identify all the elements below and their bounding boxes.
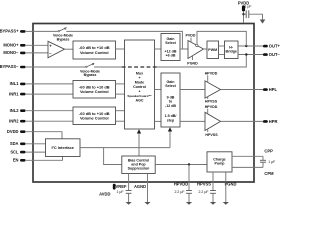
bias control box	[122, 156, 155, 174]
wire EN to I2C box bottom	[26, 157, 63, 161]
wire gain2 to HP amp R	[180, 120, 205, 122]
HPVSS label of A2	[205, 97, 218, 104]
svg-text:Volume Control: Volume Control	[80, 116, 109, 121]
svg-text:CPM: CPM	[264, 171, 274, 176]
pin HPVSS bottom	[197, 182, 216, 202]
wire PVDD down into box	[243, 11, 245, 23]
pin INL1	[10, 81, 26, 86]
svg-text:Bypass: Bypass	[57, 38, 70, 42]
svg-text:HPVSS: HPVSS	[205, 99, 218, 103]
mux mode control AGC box	[125, 40, 155, 129]
ground for PGND	[223, 202, 229, 205]
capacitor C1 flying cap	[260, 156, 275, 167]
svg-text:DVDD: DVDD	[7, 129, 19, 134]
svg-text:-12 dB: -12 dB	[165, 104, 176, 108]
svg-text:AGND: AGND	[134, 184, 146, 189]
svg-text:2.2 μF: 2.2 μF	[199, 190, 209, 194]
pin INL2	[10, 108, 26, 113]
wire charge pump to CPP	[232, 155, 263, 157]
headphone amp A2 (left)	[205, 81, 221, 98]
node OUT- junction	[245, 53, 247, 55]
wire A1 to PWM	[204, 48, 208, 50]
pin OUT+	[263, 44, 280, 49]
svg-text:INL2: INL2	[10, 108, 20, 113]
svg-text:INR2: INR2	[9, 118, 19, 123]
svg-text:HPVDD: HPVDD	[205, 105, 218, 109]
svg-text:VREF: VREF	[116, 184, 127, 189]
wire MONO-	[26, 52, 48, 54]
svg-text:HPVSS: HPVSS	[205, 133, 218, 137]
wire bias box down to VREF	[128, 174, 130, 183]
svg-text:I²C Interface: I²C Interface	[51, 145, 74, 150]
H-bridge box	[225, 41, 239, 59]
HPVSS label of A3	[205, 129, 218, 137]
svg-text:Mode: Mode	[135, 80, 144, 84]
wire gain1 to class-D amp	[180, 48, 188, 50]
svg-text:+: +	[138, 76, 140, 80]
svg-text:Bridge: Bridge	[226, 50, 237, 54]
svg-text:Pump: Pump	[215, 162, 226, 166]
svg-text:1 μF: 1 μF	[116, 190, 123, 194]
class-D amplifier A1	[188, 41, 204, 59]
svg-text:Control: Control	[133, 85, 146, 89]
ground for HPVSS	[210, 202, 216, 205]
svg-text:HPVDD: HPVDD	[205, 72, 218, 76]
svg-text:SCL: SCL	[10, 149, 19, 154]
volume control box 1 (mono)	[73, 41, 116, 59]
wire A3 to HPR	[221, 120, 264, 122]
pin SDA	[10, 141, 26, 146]
PGND label of A1	[187, 56, 198, 66]
wire charge pump to CPM	[232, 166, 263, 168]
wire bias to gain select 2 arrow	[168, 127, 172, 147]
svg-text:+6 dB: +6 dB	[166, 53, 176, 57]
wire SDA	[26, 143, 46, 145]
op-amp U1 mono differential amp	[48, 41, 65, 58]
wires PWM to H-bridge	[219, 46, 225, 55]
pin AVDD bottom	[99, 184, 115, 197]
svg-text:BYPASS−: BYPASS−	[0, 64, 19, 69]
svg-text:SDA: SDA	[10, 141, 19, 146]
headphone amp A3 (right)	[205, 112, 221, 130]
svg-text:HPR: HPR	[269, 119, 278, 124]
pin SCL	[10, 149, 25, 154]
wire BYPASS+ to switch	[26, 30, 58, 32]
pin CPP	[264, 149, 273, 154]
svg-text:CPP: CPP	[264, 149, 273, 154]
wire BYPASS- dashed through mux	[122, 66, 158, 68]
svg-text:AGC: AGC	[136, 98, 144, 102]
pin PVDD top	[238, 0, 249, 11]
volume control box 2 (INL1/INR1)	[73, 81, 116, 99]
svg-text:HPVSS: HPVSS	[197, 182, 211, 187]
pin HPL	[263, 87, 277, 92]
ground for AGND	[144, 202, 150, 205]
wire INR1	[26, 93, 73, 95]
svg-text:HPL: HPL	[269, 87, 278, 92]
svg-text:PGND: PGND	[187, 62, 198, 66]
pin BYPASS-	[0, 64, 26, 69]
svg-text:EN: EN	[13, 158, 19, 163]
switch S1 voice-mode bypass	[53, 28, 73, 42]
svg-text:+: +	[138, 89, 140, 93]
svg-text:SpeakerGuard™: SpeakerGuard™	[127, 94, 151, 98]
ground for VREF	[126, 202, 132, 205]
charge pump box	[207, 152, 232, 172]
wire INL2	[26, 110, 73, 112]
pin DVDD	[7, 129, 26, 134]
wire mux to gain select 1	[155, 48, 162, 50]
pin CPM	[264, 171, 274, 176]
PVDD supply label of A1	[186, 34, 196, 43]
svg-text:Volume Control: Volume Control	[80, 50, 109, 55]
svg-text:Select: Select	[165, 41, 176, 45]
svg-text:MONO−: MONO−	[3, 50, 19, 55]
wire bias to mux arrow	[137, 129, 141, 156]
wires volume2 to mux	[116, 84, 125, 94]
wire HPVDD junction down	[188, 165, 190, 183]
svg-text:Mux: Mux	[136, 71, 143, 75]
pin VREF bottom	[116, 182, 132, 202]
pin OUT-	[263, 52, 280, 57]
svg-text:OUT−: OUT−	[269, 52, 280, 57]
svg-text:Bypass: Bypass	[84, 73, 97, 77]
pin INR1	[9, 91, 25, 96]
HPVDD label of A2	[205, 72, 218, 83]
pin MONO-	[3, 50, 25, 55]
svg-text:step: step	[167, 119, 175, 123]
svg-text:OUT+: OUT+	[269, 44, 280, 49]
pin MONO+	[3, 43, 25, 48]
ground for HPVDD	[186, 202, 192, 205]
wire MONO+	[26, 44, 48, 46]
node PVDD junction	[242, 13, 244, 15]
outer device box	[33, 24, 254, 183]
svg-text:1.5 dB/: 1.5 dB/	[165, 114, 177, 118]
svg-text:INL1: INL1	[10, 81, 20, 86]
capacitor C2 PVDD decoupling	[244, 5, 263, 20]
wire drop to bias control box	[104, 148, 122, 165]
svg-text:1 μF: 1 μF	[245, 5, 252, 9]
pin EN	[13, 158, 26, 163]
svg-text:PGND: PGND	[225, 182, 237, 187]
wire A2 to HPL	[221, 89, 264, 91]
wire I2C to bias control net	[80, 147, 170, 149]
pin PGND bottom	[225, 182, 237, 202]
svg-text:Suppression: Suppression	[128, 167, 150, 171]
wire BYPASS- to switch 2	[26, 66, 86, 68]
gain select box 1 (speaker)	[161, 34, 180, 61]
pin HPR	[263, 119, 277, 124]
svg-text:MONO+: MONO+	[3, 43, 19, 48]
pin AGND bottom	[134, 182, 148, 202]
wire BYPASS- to OUT- node	[155, 55, 247, 68]
gain select box 2 (headphone)	[161, 73, 180, 127]
I2C interface box	[46, 139, 81, 157]
wire bias box down to AGND	[147, 174, 149, 183]
feedback node circle on A1	[196, 44, 198, 46]
svg-text:2.2 μF: 2.2 μF	[175, 190, 185, 194]
volume control box 3 (INL2/INR2)	[73, 107, 116, 125]
ground for PVDD cap	[260, 20, 266, 24]
PWM box	[207, 41, 219, 59]
pin BYPASS+	[0, 29, 26, 34]
svg-text:INR1: INR1	[9, 91, 19, 96]
wire SCL	[26, 151, 46, 153]
wire OUT- line	[238, 54, 263, 56]
wire BYPASS+ from switch to class-D input	[66, 31, 188, 49]
wires volume3 to mux	[116, 111, 125, 122]
wire bias box to charge pump	[155, 164, 207, 166]
svg-text:1 μF: 1 μF	[268, 160, 275, 164]
wire INR2	[26, 120, 73, 122]
wire charge pump to HPVSS pin	[212, 172, 214, 182]
svg-text:PWM: PWM	[208, 48, 217, 52]
pin HPVDD bottom	[174, 182, 192, 202]
svg-text:Select: Select	[165, 84, 176, 88]
wire INL1	[26, 83, 73, 85]
node junction to HPVDD cap	[188, 163, 190, 165]
wire charge pump to PGND pin	[225, 172, 227, 182]
svg-text:HPVDD: HPVDD	[174, 182, 188, 187]
wire feedback OUT+ to A1	[197, 31, 246, 46]
svg-text:PVDD: PVDD	[186, 34, 196, 38]
wire opamp output to volume control 1	[65, 48, 74, 50]
wire OUT+ line	[238, 45, 263, 47]
wire gain2 to HP amp L	[180, 89, 205, 91]
switch S2 voice-mode bypass	[80, 63, 100, 77]
wire DVDD to I2C box	[26, 132, 62, 139]
wire BYPASS- solid to mux box	[94, 66, 125, 68]
wires mux to gain select 2	[155, 90, 162, 122]
HPVDD label of A3	[205, 105, 218, 114]
wire volume1 to mux	[116, 48, 125, 50]
pin INR2	[9, 118, 25, 123]
svg-text:AVDD: AVDD	[99, 191, 110, 196]
svg-text:Volume Control: Volume Control	[80, 89, 109, 94]
node OUT+ junction	[245, 45, 247, 47]
svg-text:BYPASS+: BYPASS+	[0, 29, 19, 34]
